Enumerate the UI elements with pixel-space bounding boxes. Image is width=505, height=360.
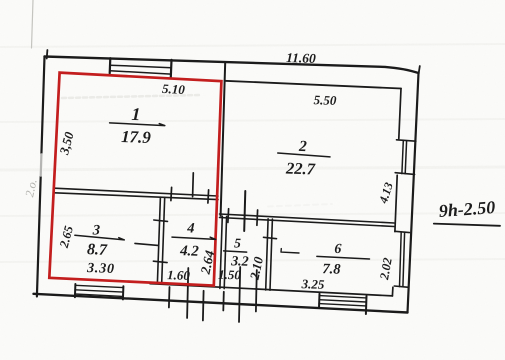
svg-text:2.о.: 2.о. (22, 178, 39, 199)
partition rooms 5|6 line a (266, 219, 268, 290)
label room 2 bar (278, 153, 330, 157)
svg-text:7.8: 7.8 (322, 261, 341, 278)
svg-text:1.60: 1.60 (167, 267, 191, 283)
door tick rooms 2|5 right (256, 210, 259, 225)
svg-text:1.50: 1.50 (218, 267, 242, 283)
inner wall bottom span (150, 284, 392, 296)
faint erased text room 1 (62, 95, 200, 98)
partition rooms 4|5 line a (220, 216, 222, 288)
inner wall right segment c (391, 287, 394, 296)
window W3 room6 right wall top sill (395, 231, 410, 232)
svg-text:2: 2 (298, 138, 308, 155)
outer wall top (45, 57, 419, 74)
window W4 right jamb (122, 286, 125, 299)
svg-text:11.60: 11.60 (286, 50, 316, 66)
window W4 bottom wall left jamb (74, 284, 77, 297)
partition rooms 5|6 line b (270, 219, 272, 290)
label room 6 bar (317, 256, 370, 259)
door tick rooms 1|4 left (170, 187, 173, 200)
door tick rooms 5|6 (264, 237, 277, 238)
left wall faded patch (39, 155, 43, 175)
window W4 middle line (75, 290, 123, 292)
scan background streaks (0, 44, 505, 262)
partition rooms 1|3,4 lower line (55, 193, 219, 200)
window W1 top wall left jamb (109, 58, 112, 73)
dimension tick below bottom wall x169 (168, 287, 171, 308)
partition rooms 4|5 line b (224, 216, 226, 288)
note underline (434, 224, 500, 226)
window W2 pane a (402, 141, 403, 174)
partition rooms 2|5,6 upper line (220, 214, 395, 223)
svg-text:5: 5 (234, 235, 242, 250)
window W3 pane b (403, 232, 405, 286)
window W3 pane a (400, 232, 402, 287)
partition rooms 1|2 (221, 62, 226, 216)
partition rooms 3|4 line a (157, 197, 160, 283)
outer wall right (408, 73, 419, 313)
svg-text:9h-2.50: 9h-2.50 (438, 197, 496, 221)
red highlight outline rooms 1-3-4 (49, 73, 221, 286)
window W3 bottom sill (394, 286, 408, 287)
label room 6 leader (281, 249, 299, 253)
outer wall bottom (34, 294, 408, 313)
svg-text:3: 3 (92, 222, 101, 238)
svg-text:4.2: 4.2 (179, 243, 200, 260)
inner wall right segment b (395, 175, 397, 231)
door leaf rooms 1|4 (192, 173, 195, 197)
dimension tick below bottom wall x256 (255, 270, 258, 312)
window W2 room2 right wall top sill (397, 140, 416, 141)
window W5 bottom line (319, 304, 366, 306)
inner wall top room 2 (225, 81, 402, 89)
svg-text:17.9: 17.9 (121, 127, 152, 147)
window W1 inner line (110, 71, 171, 74)
svg-text:22.7: 22.7 (285, 158, 316, 178)
door tick rooms 3|4 lower (153, 261, 167, 262)
door tick rooms 3|4 upper (154, 220, 168, 221)
dimension tick below bottom wall x239 (239, 267, 240, 322)
window W1 right jamb (170, 60, 173, 77)
dimension tick below bottom wall x187 (187, 268, 188, 318)
window W2 bottom sill (395, 173, 414, 175)
label room 5 bar (224, 251, 247, 252)
svg-text:2.65: 2.65 (57, 224, 76, 250)
window W1 middle line (110, 65, 171, 68)
window W5 bottom wall left jamb (318, 294, 321, 308)
label room 1 bar (110, 123, 165, 126)
window W5 top line (319, 296, 366, 298)
partition rooms 3|4 line b (162, 197, 165, 283)
window W4 top line (75, 285, 123, 287)
door tick rooms 2|5 left (227, 209, 230, 223)
tick top-left corner (46, 50, 49, 59)
svg-text:4: 4 (186, 220, 195, 236)
window W4 bottom line (75, 294, 123, 296)
svg-text:3.30: 3.30 (86, 261, 115, 277)
outer wall left (37, 57, 45, 297)
pencil vertical line top-left (32, 0, 34, 48)
window W5 middle line (319, 300, 366, 302)
svg-text:6: 6 (334, 242, 342, 257)
svg-text:8.7: 8.7 (87, 241, 109, 259)
label room 4 bar (172, 237, 216, 239)
svg-text:3.25: 3.25 (300, 276, 325, 292)
svg-text:3,50: 3,50 (56, 130, 77, 157)
door leaf room 2 (244, 191, 245, 231)
door tick rooms 1|4 right (207, 190, 210, 203)
partition rooms 2|5,6 lower line (220, 218, 395, 227)
label room 3 bar (75, 235, 124, 240)
faint mark room 2 (268, 204, 332, 207)
door leaf room 3 (135, 243, 158, 245)
svg-text:5.10: 5.10 (162, 81, 186, 97)
window W2 pane b (405, 141, 406, 174)
window W5 right jamb (365, 296, 368, 314)
dimension tick below bottom wall x223 (222, 292, 225, 311)
partition rooms 1|3,4 upper line (55, 188, 219, 196)
tick top-right corner (419, 66, 420, 75)
dimension tick below bottom wall x203 (202, 291, 205, 321)
svg-text:2.10: 2.10 (246, 255, 266, 282)
svg-text:2.02: 2.02 (377, 257, 395, 282)
svg-text:4.13: 4.13 (376, 181, 396, 206)
svg-text:5.50: 5.50 (313, 92, 337, 108)
inner wall right segment a (399, 89, 401, 139)
svg-text:1: 1 (131, 104, 141, 124)
